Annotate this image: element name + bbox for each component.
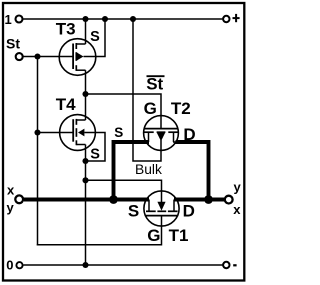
svg-text:T2: T2 bbox=[171, 99, 191, 118]
svg-text:T4: T4 bbox=[56, 95, 76, 114]
wire T3 source up to rail bbox=[85, 19, 87, 44]
svg-text:T1: T1 bbox=[169, 226, 189, 245]
svg-text:D: D bbox=[183, 202, 195, 221]
svg-text:1: 1 bbox=[5, 12, 12, 27]
wire T4 bulk loop to source bbox=[84, 133, 105, 162]
node: T3 bulk to rail junction bbox=[102, 16, 108, 22]
node T4 source junction bbox=[82, 158, 88, 164]
svg-text:x: x bbox=[7, 182, 15, 197]
svg-text:S: S bbox=[90, 146, 100, 162]
wire Stbar node to T2 gate bbox=[86, 94, 162, 129]
wire bulk of T1 bbox=[86, 180, 162, 204]
node: T3 source to rail junction bbox=[82, 16, 88, 22]
wire top supply rail node 1/+ bbox=[23, 18, 222, 20]
terminal - bbox=[223, 262, 236, 268]
transistor T1 (NMOS, vertical) bbox=[144, 191, 179, 226]
wire T4 source down bbox=[85, 145, 87, 162]
svg-text:y: y bbox=[234, 180, 242, 195]
terminal St bbox=[6, 36, 23, 61]
wire T4 drain up to Stbar node bbox=[85, 94, 87, 120]
node St branch junction bbox=[34, 53, 40, 59]
wire T2 drain thick to y node bbox=[176, 142, 209, 198]
terminal x/y left bbox=[7, 182, 24, 215]
wire St to T3 gate bbox=[24, 56, 74, 58]
svg-text:Bulk: Bulk bbox=[135, 162, 162, 177]
node: T2 bulk to rail junction bbox=[130, 16, 136, 22]
node T4 source on 0 rail bbox=[82, 262, 88, 268]
transistor T2 (PMOS, vertical) bbox=[144, 116, 179, 151]
wire T4 gate lead bbox=[38, 132, 74, 134]
svg-text:G: G bbox=[147, 226, 160, 245]
node T4 gate junction bbox=[34, 129, 40, 135]
terminal 1 bbox=[5, 12, 23, 27]
svg-text:0: 0 bbox=[6, 258, 13, 273]
wire T4 source to 0 rail bbox=[85, 161, 87, 265]
transistor T4 (NMOS) bbox=[60, 115, 96, 151]
svg-text:St: St bbox=[146, 75, 163, 94]
node T2 drain on rail bbox=[204, 195, 213, 204]
wire T3 bulk to rail (right side of S box) bbox=[84, 19, 106, 57]
svg-text:x: x bbox=[233, 202, 241, 217]
node bulk wire junction bbox=[82, 177, 88, 183]
wire 0 rail bbox=[23, 264, 222, 266]
terminal + bbox=[223, 14, 240, 22]
wire T2 bulk to top rail bbox=[133, 19, 161, 161]
svg-text:T3: T3 bbox=[56, 20, 76, 39]
svg-text:G: G bbox=[144, 99, 157, 118]
terminal 0 bbox=[6, 258, 22, 273]
label Stbar bbox=[146, 75, 164, 94]
wire x-y thick rail right bbox=[174, 198, 224, 202]
wire T1 gate vertical bbox=[161, 215, 163, 246]
wire T2 source thick to x node bbox=[114, 142, 150, 198]
svg-text:S: S bbox=[90, 29, 100, 45]
svg-text:S: S bbox=[114, 125, 123, 140]
wire x-y thick rail left bbox=[24, 198, 149, 202]
svg-text:S: S bbox=[128, 202, 139, 221]
wire St vertical down to T1 gate wire bbox=[37, 57, 39, 246]
node T2 source on rail bbox=[109, 195, 118, 204]
transistor T3 (PMOS) bbox=[59, 39, 96, 76]
svg-text:y: y bbox=[7, 200, 15, 215]
terminal y/x right bbox=[225, 180, 242, 217]
node Stbar junction bbox=[82, 91, 88, 97]
svg-text:St: St bbox=[6, 36, 20, 52]
wire T3 drain down to Stbar node bbox=[85, 70, 87, 94]
wire bottom gate wire to T1 bbox=[37, 244, 162, 246]
